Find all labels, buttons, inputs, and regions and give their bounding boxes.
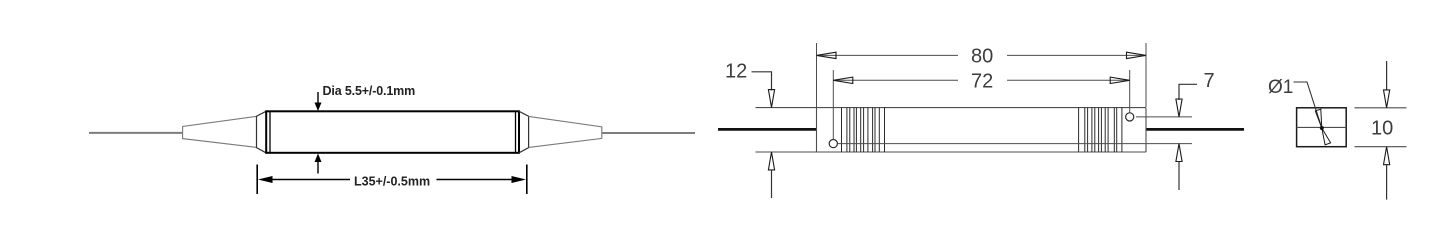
axis line from left hole [838,143,1192,145]
svg-text:L35+/-0.5mm: L35+/-0.5mm [354,175,430,189]
cylinder body [266,111,519,153]
svg-text:80: 80 [971,46,993,68]
dim 12 arrow bottom [768,152,774,170]
svg-text:7: 7 [1204,70,1215,92]
dia1 leader [1294,82,1322,128]
dia arrow top [317,92,319,104]
dim 7 arrow top [1176,99,1182,117]
L35 dimension right tick [526,165,528,195]
dia arrow bottom [317,162,319,174]
dim 10 arrow bottom [1384,147,1390,165]
L35 dim line right segment [437,179,514,181]
L35 arrow left [258,176,273,183]
dim 72 extension right [1129,70,1131,113]
housing bottom line with left extension [756,151,1147,153]
cylinder inner line right [515,111,517,153]
dim 7 arrow bottom [1176,144,1182,162]
cylinder inner line left [269,111,271,153]
hole right [1126,113,1134,121]
dim 10 extension bottom [1355,146,1407,148]
dim 80 arrow right [1127,52,1147,58]
hole left [829,140,837,148]
hatch group left [842,108,885,152]
boot right [529,116,602,147]
dim 80 extension left [816,43,818,107]
thick fiber left [718,128,817,131]
dim 80 arrow left [817,52,837,58]
fiber right pigtail [602,132,695,134]
dim 7 leader [1179,84,1197,100]
housing top line with left extension [756,107,1147,109]
L35 arrow right [512,176,527,183]
dim 10 arrow top [1386,61,1388,90]
hatch group right [1079,108,1122,152]
dim 72 line [834,79,958,81]
dia1 arrow upper [1315,109,1322,128]
housing right edge [1145,108,1147,152]
end block mid line [1297,126,1347,128]
L35 dimension left tick [256,165,258,195]
axis line from right hole [1136,116,1192,118]
fiber left pigtail [89,132,183,134]
dia1 center dot [1320,126,1324,130]
cap left [257,111,267,153]
svg-text:10: 10 [1371,118,1393,140]
dia1 arrow lower [1322,128,1331,145]
dim 12 leader [752,72,772,91]
L35 dim line left segment [271,179,350,181]
svg-text:Dia 5.5+/-0.1mm: Dia 5.5+/-0.1mm [323,84,416,98]
housing left edge [816,108,818,152]
thick fiber right [1146,128,1244,131]
dim 80 line [817,54,958,56]
dim 72 arrow right [1110,77,1130,83]
dim 72 extension left [832,70,834,139]
boot left [183,116,257,147]
dim 10 extension top [1355,107,1407,109]
dim 72 arrow left [833,77,853,83]
end block [1297,108,1347,147]
cap right [519,111,529,153]
svg-text:Ø1: Ø1 [1268,77,1293,98]
dim 80 extension right [1145,43,1147,107]
svg-text:12: 12 [725,61,747,83]
dim 12 arrow top [768,90,774,108]
svg-text:72: 72 [971,70,993,92]
